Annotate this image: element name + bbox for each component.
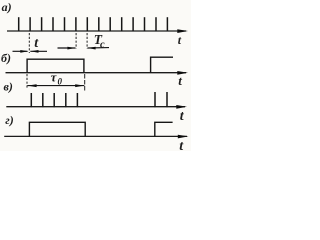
gated pulse group v [31, 93, 77, 107]
axis g [4, 135, 187, 137]
axis v [6, 106, 185, 108]
gate pulse b1 [27, 59, 84, 72]
dimension t right arm [30, 50, 47, 52]
svg-text:0: 0 [58, 76, 63, 86]
axis a arrowhead [177, 29, 188, 33]
dimension Tc right arm [88, 47, 110, 49]
svg-text:г): г) [5, 113, 13, 127]
axis a [7, 30, 186, 32]
output pulse g2 (partial) [155, 122, 173, 136]
axis b [6, 72, 187, 74]
output pulse g1 [29, 122, 85, 136]
dashed extension Tc right [86, 33, 88, 49]
dimension tau0 line [27, 85, 84, 87]
dashed extension Tc left [75, 33, 77, 49]
later pulses v [155, 92, 167, 107]
axis g arrowhead [178, 135, 189, 139]
axis v arrowhead [176, 105, 187, 109]
svg-text:а): а) [2, 0, 12, 14]
pulse train a [19, 17, 168, 31]
gate pulse b2 (partial) [151, 57, 173, 72]
dimension t left arm [13, 50, 28, 52]
svg-text:б): б) [1, 51, 11, 65]
dashed extension tau0 right [84, 74, 86, 92]
dashed extension for t dimension [28, 33, 30, 53]
dimension Tc left arm [58, 47, 76, 49]
svg-text:с: с [100, 39, 105, 50]
dashed extension tau0 left [26, 74, 28, 89]
axis b arrowhead [177, 71, 188, 75]
svg-text:t: t [178, 73, 182, 88]
svg-text:в): в) [4, 80, 13, 94]
